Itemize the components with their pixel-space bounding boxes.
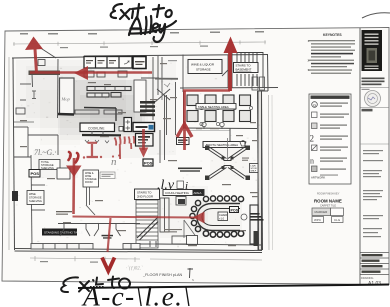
svg-text:i: i [185,180,188,192]
svg-text:STORAGE: STORAGE [29,196,42,200]
red ink marks (smudged writing) [69,155,120,161]
svg-text:DRAWING: DRAWING [361,276,373,280]
equipment row boxes [84,57,132,69]
svg-text:SHELVING: SHELVING [41,166,54,170]
wall bottom (double) [15,249,263,251]
bottom bench window [31,244,93,250]
bar stools [190,196,244,232]
handwriting Ex : L tO bottom [61,277,119,293]
south wall dining [140,241,262,247]
wine storage room label [83,170,99,187]
standing tasting table dark label [42,229,77,236]
consultant box [362,109,373,112]
red wire left dining vertical [72,158,75,214]
wall right upper bump [267,55,270,92]
svg-text:2ND FLOOR: 2ND FLOOR [137,195,153,199]
svg-text:ROOM FINISH KEY: ROOM FINISH KEY [317,193,340,196]
svg-text:n: n [111,156,117,168]
svg-text:ROOM: ROOM [85,181,92,184]
red arrowhead down mid left [66,166,82,178]
corner column [254,231,259,246]
svg-text:TABLE SEATING AREA: TABLE SEATING AREA [198,105,229,109]
ice station box [136,134,154,147]
red chevron up on dining vertical [177,124,192,137]
seal circle [365,91,381,107]
svg-text:WINE: WINE [29,192,36,196]
chair box [218,212,228,221]
lounge chairs box bottom [187,236,198,245]
hood line [82,134,121,137]
red wire bottom horizontal [73,217,198,218]
svg-text:Mop: Mop [61,97,71,102]
svg-text:POS: POS [144,161,153,166]
svg-text:ARTWORK: ARTWORK [311,176,325,180]
svg-text:STANDING TASTING TABLE: STANDING TASTING TABLE [44,231,83,235]
dining mid wall [183,128,257,143]
small boxes right of stairs room [240,77,265,146]
svg-text:COOKLINE: COOKLINE [88,127,104,131]
exit tag below chevron [177,138,190,145]
storage shelving label [39,160,60,171]
left wall door dark stub [12,191,18,201]
svg-text:WPC: WPC [314,218,322,222]
svg-text:2: 2 [310,134,315,144]
misc clutter text blobs in plan [20,63,258,246]
banquette alcoves [58,224,140,250]
chair glyphs under tables [202,122,224,129]
svg-text:WINE & LIQUOR: WINE & LIQUOR [191,63,215,67]
prep counters [87,87,131,91]
red comma marks [69,152,71,160]
half wall [84,107,116,110]
red wire drop to bottom exit [108,218,111,252]
svg-text:G: G [313,103,316,108]
bar POS [230,207,239,213]
bar spirits refrigeration [250,205,258,244]
preliminary chairs text [178,168,202,172]
mop room wall [57,59,60,118]
restroom cluster [161,68,163,100]
kitchen clutter [84,71,94,77]
small chair marks [200,106,253,125]
POS box left [29,170,40,178]
svg-text:n: n [310,157,314,166]
shelving dark bars [140,101,155,116]
svg-text:CHAIR: CHAIR [219,213,227,217]
stair break line [137,217,158,240]
liquor storage shelf box [242,158,249,161]
red wire dining horizontal to stairs [183,89,230,92]
svg-text:·´(ƒ)02.`: ·´(ƒ)02.` [126,267,143,272]
title strip bottom cells [360,253,389,275]
banquette label [102,235,114,239]
kitchen island [60,78,75,114]
svg-text:7l.~G.·: 7l.~G.· [34,148,56,157]
red wire kitchen corridor horizontal [30,71,152,73]
svg-text:ROOM NAME: ROOM NAME [314,199,342,204]
POS box center [143,159,153,166]
svg-text:+1.0: +1.0 [219,217,225,221]
exit door label strip (under red line) [29,71,61,76]
svg-text:BASEMENT: BASEMENT [236,68,252,72]
svg-text:SHELVING: SHELVING [29,199,42,203]
red arrow down at ice station [142,129,145,150]
wall right (double) [258,91,262,250]
svg-text:BOOTH SEATING AREA: BOOTH SEATING AREA [206,143,238,147]
refrigerator box [133,123,155,132]
fire rating note [56,211,72,215]
svg-text:SHLF: SHLF [251,171,257,173]
svg-text:MARKER: MARKER [315,210,329,214]
svg-text:STORAGE: STORAGE [196,68,211,72]
red arrow to alley (top-left) [35,49,37,73]
svg-text:POS: POS [31,171,40,176]
blue tag [149,125,154,130]
svg-text:_FLOOR FINISH pLAN: _FLOOR FINISH pLAN [142,273,183,277]
red wire dining vertical [183,91,186,150]
island dark base [58,113,74,116]
prep box [57,168,70,179]
red chevron bottom exit [102,258,115,272]
tall rect right of kitchen [134,80,146,112]
red arrowhead left on bottom wire [193,212,205,224]
corridor walls [152,57,154,120]
door posts [86,187,95,215]
door swing top-left [39,47,56,58]
svg-text:KEYNOTES: KEYNOTES [323,33,342,37]
pen swoosh top right [362,13,390,18]
svg-text:N: N [192,278,194,282]
svg-text:.l.v: .l.v [157,178,175,193]
svg-text:A-c-\l.e.\: A-c-\l.e.\ [81,281,192,307]
architect logo dark box [362,30,383,71]
svg-text:CLG: CLG [334,218,341,222]
wine storage shelving label [27,191,44,205]
svg-text:AREA: AREA [194,191,202,195]
red arrowhead left mid kitchen [74,66,88,80]
svg-text:POS: POS [231,209,239,213]
cookline box [80,123,115,132]
wall top [12,57,84,58]
red bold arrow up near wine storage [228,51,232,91]
wall left [13,58,15,250]
stairs to 2nd floor [136,200,158,248]
address text block [362,78,385,86]
heavy rule above A-c- [78,285,389,289]
scan speckle [16,59,260,249]
booth butterfly [227,138,229,160]
svg-text:CARPET TILE: CARPET TILE [320,205,336,208]
door swing couch entry [184,220,197,238]
handwriting Exit to Alley [111,4,176,42]
